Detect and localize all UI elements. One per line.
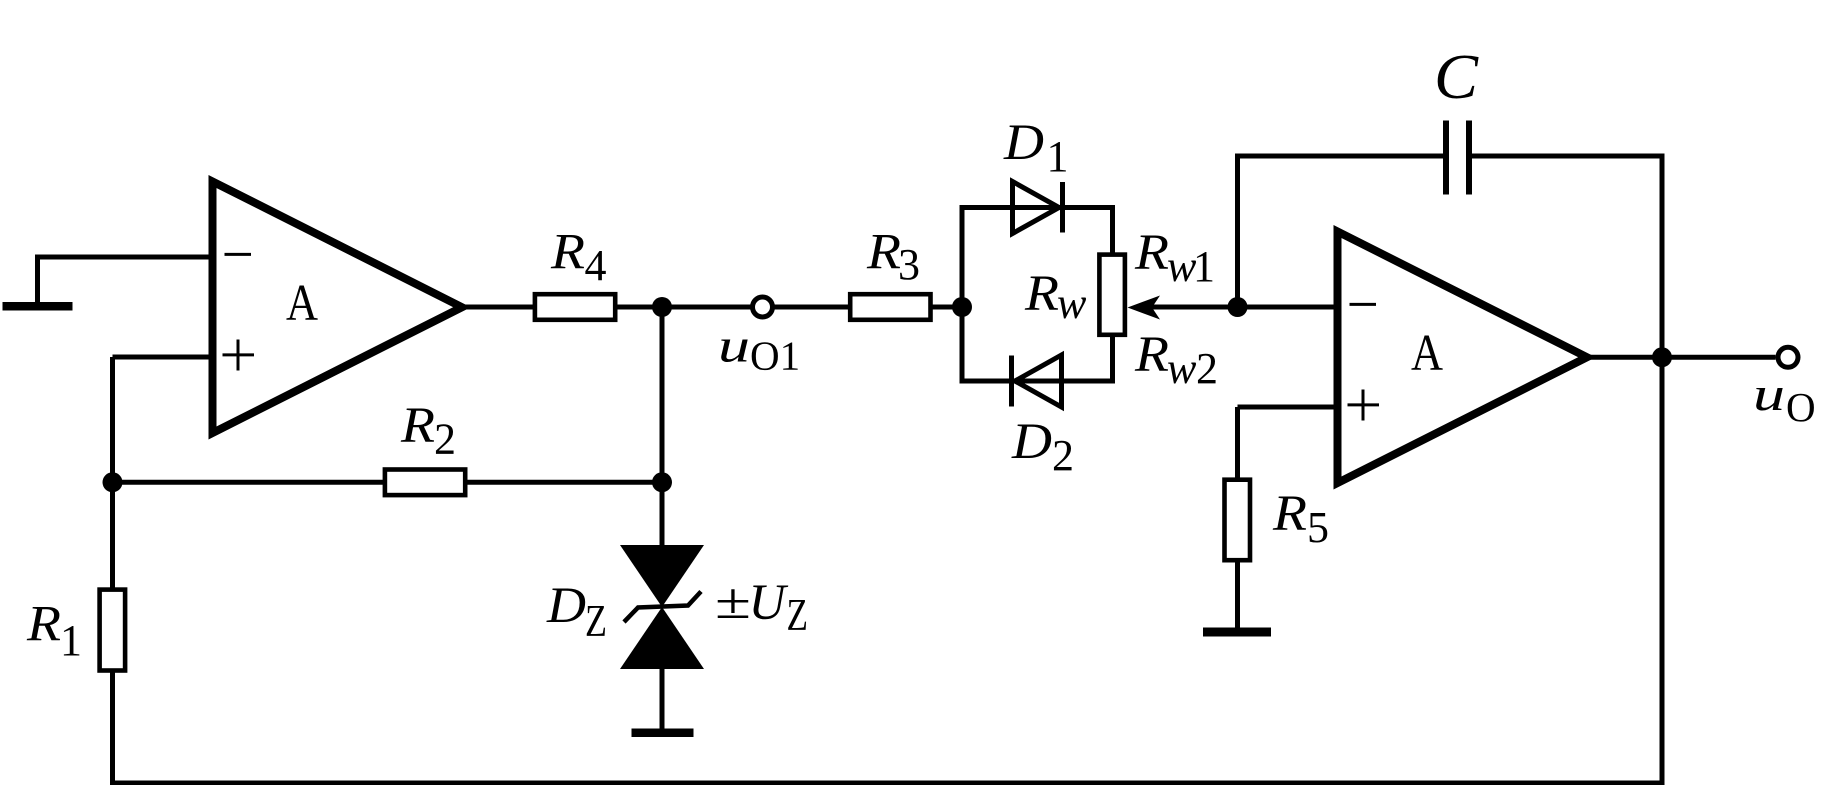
wire: plus input down to R5 [1235, 407, 1240, 478]
label Rw1 [1134, 225, 1215, 291]
wire: node D to terminal uO1 [662, 305, 751, 310]
svg-text:D: D [1003, 115, 1044, 171]
wire: node B to R2 [113, 480, 385, 485]
node G junction dot (output on right rail) [1652, 347, 1672, 367]
wire: G1 to U1 minus input [35, 255, 213, 260]
svg-text:1: 1 [1047, 132, 1069, 181]
label uO1 [718, 319, 800, 378]
wire: U1 plus input [113, 355, 213, 360]
svg-text:5: 5 [1307, 503, 1329, 552]
svg-text:R: R [550, 225, 585, 281]
terminal uO1 open circle [753, 297, 773, 317]
ground G3 [632, 729, 694, 738]
svg-text:2: 2 [1052, 431, 1074, 480]
terminal uO open circle [1778, 347, 1798, 367]
wire: wiper to node F [1150, 305, 1238, 310]
wire: node B down to R1 [110, 482, 115, 588]
label R3 [866, 225, 920, 289]
wire: diode loop top [960, 205, 1116, 210]
wire: U2 output to terminal uO [1583, 355, 1776, 360]
capacitor C [1443, 121, 1472, 195]
resistor R5 [1225, 480, 1251, 561]
potentiometer Rw wiper arrow [1128, 296, 1161, 320]
resistor R3 [850, 294, 930, 320]
diode D1 [1013, 182, 1063, 234]
resistor R1 [100, 590, 126, 671]
svg-text:u: u [1753, 368, 1785, 421]
svg-text:A: A [286, 275, 318, 332]
svg-text:±: ± [715, 574, 751, 630]
label uO [1753, 368, 1816, 430]
svg-text:O: O [1786, 384, 1816, 430]
svg-text:w: w [1057, 279, 1087, 328]
svg-text:R: R [400, 398, 435, 454]
wire: R4 to node D [618, 305, 663, 310]
svg-text:1: 1 [60, 616, 82, 665]
svg-text:1: 1 [1193, 242, 1215, 291]
potentiometer Rw body [1099, 255, 1125, 335]
zener diode DZ (bidirectional) [620, 545, 704, 669]
wire: diode loop bottom [960, 379, 1116, 384]
svg-text:R: R [866, 225, 901, 281]
label D2 [1011, 414, 1074, 480]
op-amp U1 plus pin label [223, 340, 255, 371]
node E junction dot [952, 297, 972, 317]
svg-text:U: U [749, 575, 789, 631]
svg-text:u: u [718, 319, 750, 372]
wire: R3 to node E [932, 305, 963, 310]
wire: zener DZ to ground G3 [660, 669, 665, 733]
svg-text:D: D [546, 578, 586, 634]
ground G2 [1203, 628, 1271, 637]
op-amp U2 (A) [1338, 232, 1588, 484]
label R4 [550, 225, 607, 291]
resistor R4 [535, 294, 615, 320]
wire: plus input down to node B [110, 357, 115, 482]
svg-text:Z: Z [787, 590, 809, 640]
svg-text:Z: Z [585, 595, 607, 646]
svg-text:w: w [1167, 344, 1197, 393]
node B junction dot [103, 472, 123, 492]
svg-text:R: R [1134, 225, 1169, 281]
svg-text:2: 2 [434, 415, 456, 464]
wire: R5 to ground G2 [1235, 561, 1240, 632]
wire: diode loop left vertical [960, 208, 965, 382]
label R1 [26, 597, 82, 666]
svg-text:R: R [1272, 486, 1307, 542]
svg-text:D: D [1011, 414, 1052, 470]
op-amp U1 minus pin label [225, 253, 252, 256]
node D junction dot [652, 297, 672, 317]
wire: R2 to node C [468, 480, 663, 485]
label D1 [1003, 115, 1069, 181]
wire: node F to U2 minus input [1238, 305, 1338, 310]
resistor R2 [385, 470, 465, 496]
label R2 [400, 398, 456, 464]
svg-text:O1: O1 [750, 333, 800, 379]
diode D2 [1012, 355, 1062, 407]
label plus-minus UZ [715, 574, 808, 640]
label Rw2 [1134, 327, 1218, 393]
wire: diode loop right vertical upper [1110, 208, 1115, 255]
label Rw [1024, 266, 1087, 328]
wire: node D down to node C [660, 307, 665, 482]
ground G1 (inverting input of U1) [3, 257, 73, 311]
wire: node C down to zener DZ [660, 482, 665, 547]
svg-text:R: R [1134, 327, 1169, 383]
svg-text:4: 4 [585, 241, 607, 290]
wire: U1 output to R4 [458, 305, 534, 310]
svg-text:3: 3 [898, 240, 920, 289]
op-amp U1 (A) [213, 182, 463, 434]
svg-text:R: R [26, 597, 61, 653]
svg-text:2: 2 [1196, 344, 1218, 393]
svg-text:C: C [1434, 41, 1479, 112]
op-amp U2 plus pin label [1348, 390, 1380, 421]
op-amp U2 minus pin label [1350, 303, 1377, 306]
node F junction dot [1228, 297, 1248, 317]
wire: U2 plus input [1238, 405, 1338, 410]
wire: diode loop right vertical lower [1110, 336, 1115, 382]
svg-text:R: R [1024, 266, 1059, 322]
label R5 [1272, 486, 1329, 552]
wire: terminal uO1 to R3 [775, 305, 850, 310]
label DZ [546, 578, 607, 646]
wire: capacitor C to right rail [113, 156, 1663, 783]
node C junction dot [652, 472, 672, 492]
svg-text:A: A [1411, 325, 1443, 382]
wire: node F up and right to capacitor C [1238, 156, 1444, 307]
